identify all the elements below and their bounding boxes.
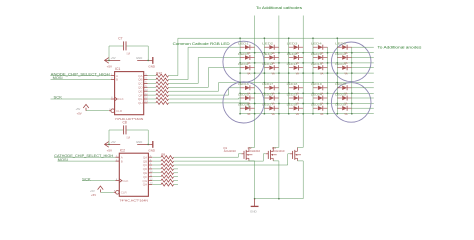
svg-text:R9: R9 [161, 152, 165, 156]
svg-text:LED1: LED1 [238, 42, 249, 46]
svg-text:ACH1010: ACH1010 [272, 149, 285, 153]
svg-text:Common Cathode RGB LED: Common Cathode RGB LED [173, 42, 231, 46]
svg-text:CLK: CLK [118, 97, 124, 101]
svg-text:74*HC,HCT*164N: 74*HC,HCT*164N [115, 117, 144, 121]
svg-text:LED12: LED12 [262, 62, 273, 66]
svg-text:LED24: LED24 [311, 92, 322, 96]
svg-text:VA: VA [344, 72, 347, 75]
svg-text:74*HC,HCT*164N: 74*HC,HCT*164N [120, 199, 149, 203]
svg-text:MOSI: MOSI [58, 158, 68, 162]
svg-text:CLR: CLR [121, 191, 128, 195]
svg-text:+5V: +5V [91, 193, 96, 197]
svg-text:LED27: LED27 [262, 103, 273, 107]
svg-text:LED16: LED16 [238, 82, 249, 86]
svg-text:QH: QH [138, 101, 143, 105]
svg-text:MOSI: MOSI [53, 76, 63, 80]
svg-text:SCK: SCK [82, 177, 92, 181]
svg-text:LED21: LED21 [238, 92, 249, 96]
svg-text:LED8: LED8 [287, 52, 298, 56]
svg-text:+5V: +5V [77, 112, 82, 116]
svg-text:GND: GND [250, 209, 258, 213]
svg-text:LED3: LED3 [287, 42, 298, 46]
svg-text:LED2: LED2 [262, 42, 273, 46]
svg-text:LED28: LED28 [287, 103, 298, 107]
svg-text:LED25: LED25 [335, 92, 346, 96]
svg-text:To Additional anodes: To Additional anodes [377, 45, 422, 49]
svg-text:LED26: LED26 [238, 103, 249, 107]
svg-text:CLR: CLR [116, 109, 123, 113]
svg-text:LED11: LED11 [238, 62, 249, 66]
svg-text:LED9: LED9 [311, 52, 322, 56]
svg-text:+5V: +5V [111, 140, 116, 144]
svg-text:C7: C7 [118, 36, 122, 40]
svg-text:VA: VA [247, 113, 250, 116]
svg-text:LED5: LED5 [335, 42, 346, 46]
svg-text:VA: VA [320, 72, 323, 75]
svg-text:LED22: LED22 [262, 92, 273, 96]
svg-text:LED18: LED18 [287, 82, 298, 86]
svg-text:C8: C8 [123, 120, 127, 124]
svg-text:ACH1010: ACH1010 [224, 149, 237, 153]
svg-text:LED14: LED14 [311, 62, 322, 66]
svg-text:B: B [121, 159, 123, 163]
svg-text:+5V: +5V [107, 148, 112, 152]
svg-text:VA: VA [247, 72, 250, 75]
svg-text:LED13: LED13 [287, 62, 298, 66]
svg-text:GND: GND [148, 149, 156, 153]
svg-text:LED6: LED6 [238, 52, 249, 56]
svg-text:LED10: LED10 [335, 52, 346, 56]
svg-text:LED29: LED29 [311, 103, 322, 107]
svg-text:CLK: CLK [123, 179, 129, 183]
svg-text:VA: VA [296, 113, 299, 116]
svg-text:GND: GND [136, 56, 142, 60]
svg-text:IC2: IC2 [120, 149, 125, 153]
svg-text:R17: R17 [156, 71, 162, 75]
svg-text:QH: QH [143, 183, 148, 187]
svg-text:LED4: LED4 [311, 42, 322, 46]
svg-text:0.1uF: 0.1uF [127, 135, 131, 139]
svg-text:VA: VA [344, 113, 347, 116]
svg-text:LED30: LED30 [335, 103, 346, 107]
svg-text:B: B [116, 78, 118, 82]
svg-text:0.1uF: 0.1uF [127, 51, 131, 55]
svg-text:+5V: +5V [111, 56, 116, 60]
svg-text:To Additional cathodes: To Additional cathodes [256, 6, 303, 10]
svg-text:LED7: LED7 [262, 52, 273, 56]
svg-text:LED19: LED19 [311, 82, 322, 86]
svg-text:VA: VA [272, 113, 275, 116]
svg-text:GND: GND [148, 65, 156, 69]
svg-text:VA: VA [272, 72, 275, 75]
svg-text:LED17: LED17 [262, 82, 273, 86]
svg-text:GND: GND [136, 140, 142, 144]
svg-text:VA: VA [296, 72, 299, 75]
svg-text:SCK: SCK [54, 96, 64, 100]
svg-text:LED15: LED15 [335, 62, 346, 66]
svg-text:ACH1010: ACH1010 [248, 149, 261, 153]
svg-text:VA: VA [320, 113, 323, 116]
svg-text:+5V: +5V [107, 64, 112, 68]
svg-text:LED23: LED23 [287, 92, 298, 96]
svg-text:IC1: IC1 [115, 67, 120, 71]
svg-text:LED20: LED20 [335, 82, 346, 86]
